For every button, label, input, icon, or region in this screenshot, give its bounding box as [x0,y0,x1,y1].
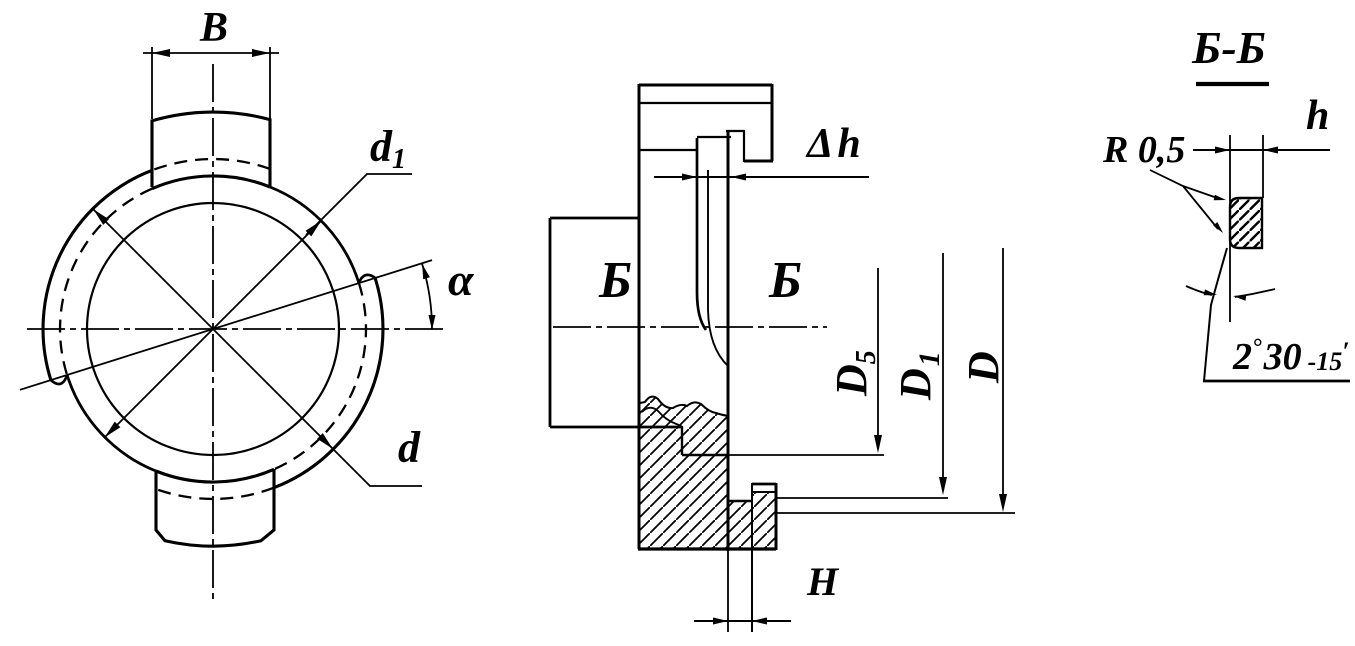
svg-text:Б: Б [768,252,802,309]
svg-text:Б-Б: Б-Б [1191,22,1266,73]
svg-text:d: d [398,423,421,472]
svg-text:D: D [959,351,1008,384]
svg-text:α: α [448,254,475,305]
svg-text:H: H [806,559,840,604]
svg-text:Б: Б [598,252,632,309]
svg-text:h: h [1306,93,1329,139]
svg-text:Δh: Δh [805,121,861,167]
svg-text:B: B [199,5,228,51]
svg-text:R 0,5: R 0,5 [1102,129,1185,171]
